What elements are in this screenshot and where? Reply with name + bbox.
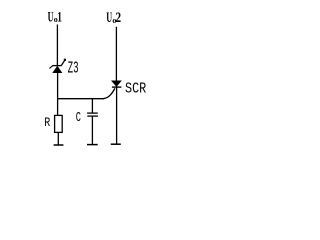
- svg-text:U: U: [48, 9, 54, 25]
- wire from zener anode down to junction and resistor: [57, 73, 59, 116]
- svg-text:Z3: Z3: [68, 59, 79, 78]
- wire from Uo1 down to zener cathode: [56, 25, 58, 66]
- terminal bar under C: [87, 144, 98, 146]
- terminal bar under SCR: [111, 143, 121, 145]
- zener diode Z3: [49, 59, 66, 73]
- capacitor bottom lead: [91, 116, 93, 144]
- svg-text:2: 2: [116, 10, 122, 26]
- node Uo2 label: [106, 10, 121, 26]
- resistor R body: [55, 115, 63, 132]
- wire below SCR cathode: [116, 87, 118, 143]
- svg-text:C: C: [76, 110, 81, 126]
- SCR gate wire (curved): [102, 88, 115, 98]
- svg-text:U: U: [106, 10, 112, 26]
- capacitor C top lead: [91, 99, 93, 113]
- svg-text:SCR: SCR: [125, 81, 146, 98]
- terminal bar under R: [54, 144, 64, 146]
- horizontal wire from left branch to SCR gate: [57, 98, 104, 100]
- svg-text:1: 1: [57, 9, 62, 25]
- capacitor C plates: [87, 113, 98, 116]
- wire below resistor: [57, 132, 59, 144]
- wire from Uo2 down to SCR anode: [115, 27, 117, 81]
- node Uo1 label: [48, 9, 62, 25]
- svg-text:R: R: [44, 115, 50, 130]
- SCR thyristor: [112, 81, 122, 87]
